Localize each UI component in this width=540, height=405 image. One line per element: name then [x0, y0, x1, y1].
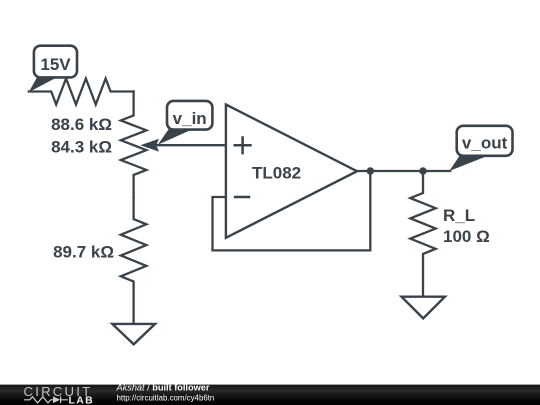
wire feedback: output node to inverting input: [213, 171, 371, 250]
svg-text:v_out: v_out: [462, 134, 508, 153]
node flag v_out: [449, 126, 512, 171]
op-amp minus input marker: [234, 196, 251, 199]
potentiometer wiper arrow: [140, 139, 159, 152]
junction dot at output node (feedback tap): [367, 167, 374, 174]
junction dot at output node (R_L tap): [419, 167, 426, 174]
svg-text:15V: 15V: [40, 55, 71, 74]
svg-text:84.3 kΩ: 84.3 kΩ: [51, 138, 112, 157]
node flag 15V: [29, 46, 77, 92]
resistor R1 88.6k (horizontal, from 15V flag to node at x=133.6): [29, 79, 134, 105]
ground symbol (left, below R3): [112, 324, 155, 344]
svg-text:v_in: v_in: [173, 109, 207, 128]
svg-text:100 Ω: 100 Ω: [443, 227, 490, 246]
svg-text:LAB: LAB: [69, 394, 94, 405]
ground symbol (right, below R_L): [402, 297, 445, 319]
wire v_in: pot wiper to op-amp non-inverting input: [147, 144, 226, 146]
node flag v_in: [158, 101, 213, 145]
svg-text:R_L: R_L: [443, 206, 475, 225]
svg-text:Akshat / built follower: Akshat / built follower: [116, 383, 210, 393]
svg-text:88.6 kΩ: 88.6 kΩ: [51, 115, 112, 134]
CircuitLab logo schematic glyph (resistor + diode): [24, 396, 68, 403]
potentiometer R2 84.3k (vertical, wiper to v_in): [121, 92, 147, 198]
footer bar: [0, 385, 540, 405]
wire output: op-amp output to v_out: [357, 170, 450, 172]
svg-text:http://circuitlab.com/cy4b6tn: http://circuitlab.com/cy4b6tn: [117, 393, 215, 402]
op-amp plus input marker: [234, 136, 252, 154]
resistor R3 89.7k (vertical, to ground): [121, 197, 147, 324]
resistor R_L 100 ohm (vertical, output node to ground): [410, 171, 435, 297]
op-amp U1 TL082 (triangle body): [226, 105, 357, 238]
svg-text:89.7 kΩ: 89.7 kΩ: [53, 242, 114, 261]
svg-text:TL082: TL082: [252, 164, 301, 183]
